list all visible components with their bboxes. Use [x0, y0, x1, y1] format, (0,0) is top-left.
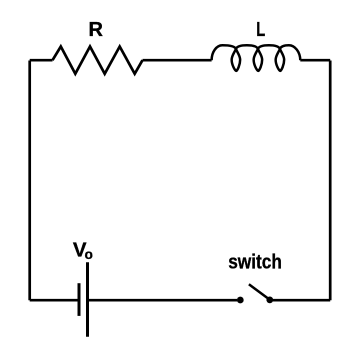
wire: right vertical side: [329, 61, 332, 301]
switch S1: left contact dot: [237, 297, 244, 304]
wire: top-right segment: [300, 59, 330, 62]
svg-text:o: o: [85, 247, 93, 262]
inductor L1 coil: [212, 45, 301, 71]
resistor R1 zigzag: [53, 47, 143, 74]
wire: bottom-left segment: [30, 299, 79, 302]
svg-text:L: L: [256, 19, 265, 41]
svg-text:R: R: [88, 19, 103, 41]
wire: left vertical side: [28, 61, 31, 301]
battery V1: long positive plate: [86, 262, 89, 337]
wire: top-left segment: [30, 59, 53, 62]
switch S1: right contact dot: [266, 297, 273, 304]
battery V1: short negative plate: [78, 283, 81, 316]
wire: bottom-right segment: [270, 299, 330, 302]
svg-text:switch: switch: [228, 250, 282, 273]
wire: bottom segment from switch to battery: [88, 299, 238, 302]
switch S1: lever arm: [249, 284, 270, 300]
wire: top-middle segment: [143, 59, 212, 62]
